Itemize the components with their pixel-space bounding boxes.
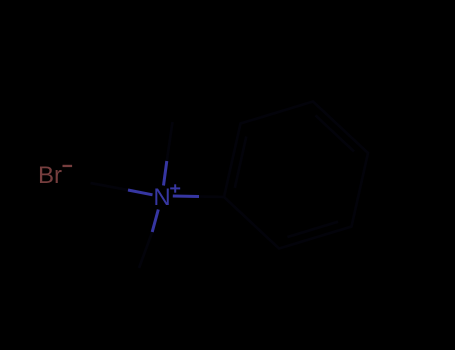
svg-text:N: N <box>153 184 170 211</box>
wire N to upper methyl (nitrogen half, blue) <box>164 161 167 186</box>
bromide negative charge superscript minus <box>63 165 73 167</box>
wire N to left methyl (nitrogen half, blue) <box>128 190 153 195</box>
wire N to lower methyl (carbon half) <box>139 232 152 268</box>
wire N to lower methyl (nitrogen half, blue) <box>152 210 158 233</box>
double bond inner line C5-C6 <box>287 222 338 237</box>
double bond inner line C3-C4 <box>316 115 355 151</box>
nitrogen positive charge plus sign <box>170 184 180 192</box>
benzene ring C1-C6 outline <box>224 102 368 249</box>
wire N to ring carbon C1 (carbon half) <box>199 195 224 198</box>
wire N to upper methyl (carbon half) <box>167 122 173 161</box>
wire N to left methyl (carbon half) <box>91 183 129 190</box>
double bond inner line C1-C2 <box>235 136 247 188</box>
svg-text:Br: Br <box>38 162 62 189</box>
wire N to ring carbon C1 (nitrogen half, blue) <box>173 195 199 199</box>
